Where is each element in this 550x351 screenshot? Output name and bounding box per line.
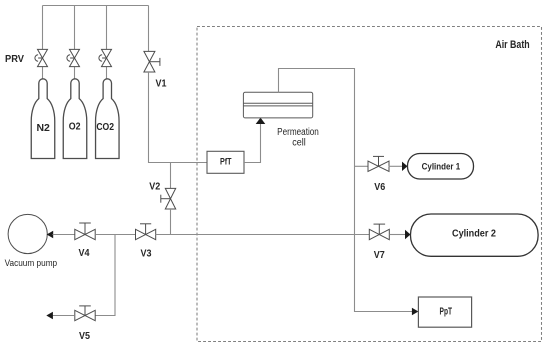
svg-text:Cylinder 2: Cylinder 2 [452,228,496,240]
arrow vent V5 [46,312,53,319]
wire header to PRV3 [106,6,108,50]
arrow into PpT [412,308,419,315]
wire top header [43,5,149,7]
svg-text:PRV: PRV [5,54,24,65]
wire PRV3 to CO2 cylinder [106,67,108,80]
wire valve V7 to Cylinder 2 [389,234,405,236]
wire PRV2 to O2 cylinder [74,67,76,80]
wire permeation cell to right riser and down to PpT [279,69,416,312]
svg-text:Air Bath: Air Bath [495,39,529,51]
svg-text:PfT: PfT [220,157,232,168]
svg-text:V7: V7 [374,250,385,261]
arrow into vacuum pump [47,231,54,238]
Cylinder 2 [411,214,539,256]
wire valve V4 to valve V3 [95,234,135,236]
svg-text:Vacuum pump: Vacuum pump [5,258,58,269]
wire valve V5 to vent [53,315,75,317]
svg-text:PpT: PpT [440,307,453,318]
svg-text:N2: N2 [37,122,51,134]
transducer PpT [418,297,471,327]
valve V1 [144,51,160,72]
arrow into permeation cell [256,118,266,124]
wire header to PRV1 [42,6,44,50]
cylinder O2 [63,79,87,159]
svg-text:V5: V5 [79,331,90,342]
vacuum pump [8,214,47,253]
svg-text:Permeation: Permeation [277,127,319,138]
wire pump to valve V4 [53,234,75,236]
transducer PfT [207,151,244,173]
arrow into Cylinder 1 [402,162,408,171]
valve V2 [161,188,176,209]
valve V7 [369,224,389,240]
wire main line V3 to valve V7 [156,234,370,236]
wire valve V6 to Cylinder 1 [389,165,403,167]
wire PfT to permeation cell [244,120,261,163]
wire PRV1 to N2 cylinder [42,67,44,80]
svg-text:cell: cell [292,137,305,148]
svg-text:V4: V4 [79,248,90,259]
cylinder CO2 [96,79,120,159]
wire header to PRV2 [74,6,76,50]
svg-text:V2: V2 [149,182,160,193]
regulator PRV2 [67,49,80,66]
permeation cell [243,92,312,118]
valve V3 [136,224,156,240]
svg-text:V6: V6 [374,182,385,193]
wire branch down to valve V2 [170,163,172,189]
svg-text:V3: V3 [141,249,152,260]
arrow into Cylinder 2 [405,230,411,239]
svg-text:Cylinder 1: Cylinder 1 [422,162,461,173]
svg-text:O2: O2 [69,121,81,133]
regulator PRV1 [35,49,48,66]
regulator PRV3 [99,49,112,66]
valve V5 [75,306,95,321]
wire V1 down to PfT line [149,72,208,163]
svg-text:CO2: CO2 [96,121,114,133]
Cylinder 1 [408,154,474,180]
wire branch junction to valve V5 [95,235,115,316]
cylinder N2 [31,79,55,159]
svg-text:V1: V1 [156,78,167,89]
Air Bath enclosure (dashed) [197,27,542,342]
valve V4 [75,223,95,240]
wire valve V2 down to main line [170,209,172,235]
valve V6 [368,156,389,171]
wire riser to valve V6 [355,165,369,167]
wire header to valve V1 [148,6,150,52]
